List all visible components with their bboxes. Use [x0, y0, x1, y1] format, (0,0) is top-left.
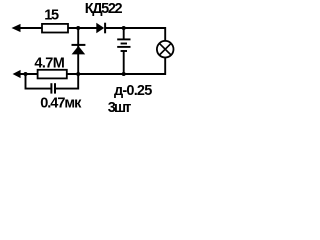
wire arrow2 to R2: [20, 73, 38, 75]
wire middle rail R2 to lamp: [67, 73, 166, 75]
lamp HL1 (circle with X): [157, 41, 174, 58]
resistor R2: [38, 70, 67, 79]
node junction top (R1 / VD1 / VD2): [76, 26, 80, 30]
wire C1 right lead: [56, 74, 78, 89]
svg-text:4.7М: 4.7М: [34, 55, 64, 71]
diode VD2 (horizontal, cathode right): [96, 23, 105, 34]
node junction bottom (battery to rail): [122, 72, 126, 76]
diode VD1 (vertical, cathode up): [72, 45, 86, 55]
node junction middle (R2 / VD1 / C1): [76, 72, 80, 76]
capacitor C1: [51, 83, 55, 93]
svg-text:КД522: КД522: [85, 1, 123, 17]
wire arrow1 to R1: [20, 27, 43, 29]
svg-text:15: 15: [44, 7, 59, 23]
probe arrow X1 (top input): [12, 24, 21, 32]
svg-text:0.47мк: 0.47мк: [40, 95, 82, 111]
node junction top right (battery tap): [122, 26, 126, 30]
wire lamp bottom lead: [164, 58, 166, 75]
wire vertical branch of diode VD1: [77, 28, 79, 74]
resistor R1: [42, 24, 68, 33]
probe arrow X2 (bottom input): [13, 70, 21, 78]
wire C1 left lead: [26, 74, 51, 89]
wire R1 to diode VD2: [68, 27, 97, 29]
svg-text:3шт: 3шт: [108, 100, 132, 116]
wire top right corner down to lamp: [163, 28, 166, 41]
wire VD2 to lamp corner: [106, 27, 166, 29]
battery GB1 (4 plates): [117, 39, 130, 51]
wire battery top lead: [123, 28, 125, 40]
node junction middle left (arrow / R2 / C1): [24, 72, 28, 76]
wire battery bottom lead: [123, 51, 125, 74]
svg-text:д-0.25: д-0.25: [114, 83, 152, 99]
